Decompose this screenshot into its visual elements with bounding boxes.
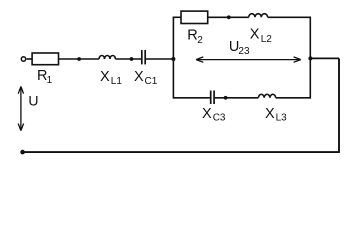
svg-text:X: X [202,106,212,122]
svg-text:1: 1 [47,75,53,86]
svg-text:X: X [100,69,110,85]
svg-text:L3: L3 [276,113,288,124]
svg-text:R: R [187,28,197,44]
svg-text:C3: C3 [213,113,226,124]
svg-text:X: X [265,106,275,122]
svg-text:C1: C1 [145,76,158,87]
svg-text:23: 23 [238,46,250,57]
svg-text:2: 2 [197,35,203,46]
svg-text:X: X [134,69,144,85]
svg-text:L1: L1 [111,76,123,87]
svg-text:X: X [250,27,260,43]
svg-text:L2: L2 [261,34,273,45]
svg-text:U: U [28,93,38,109]
